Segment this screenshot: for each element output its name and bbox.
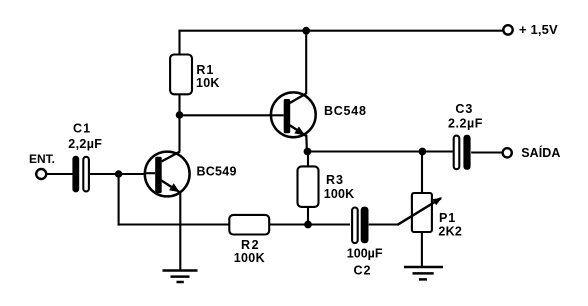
svg-text:C2: C2 — [354, 263, 372, 277]
wire: junction to BC548 base — [180, 114, 285, 116]
wire: ENT to C1 — [46, 173, 73, 175]
wire: BC549 emitter to ground — [179, 192, 181, 272]
svg-text:+ 1,5V: + 1,5V — [519, 22, 558, 37]
svg-text:C3: C3 — [455, 102, 473, 116]
svg-text:2K2: 2K2 — [438, 224, 462, 238]
wire: node A down — [118, 174, 120, 226]
resistor R3 — [298, 152, 355, 225]
wire: R2 to C2 — [269, 223, 350, 225]
capacitor C1 (2,2uF) — [68, 122, 102, 193]
svg-text:SAÍDA: SAÍDA — [521, 145, 560, 160]
capacitor C2 (100uF) — [347, 207, 383, 278]
node: BC548 emitter junction — [304, 148, 312, 156]
svg-text:C1: C1 — [73, 122, 91, 136]
resistor R1 — [170, 55, 192, 95]
node: collector to rail — [302, 27, 310, 35]
svg-text:100K: 100K — [324, 187, 354, 201]
node: P1 top junction — [419, 148, 427, 156]
svg-text:R3: R3 — [326, 173, 344, 187]
svg-text:100µF: 100µF — [347, 246, 383, 260]
wire: rail to R1 top — [178, 30, 180, 55]
node: R1 / BC549 collector / BC548 base junction — [176, 111, 184, 119]
svg-text:2,2µF: 2,2µF — [68, 137, 102, 151]
svg-text:P1: P1 — [439, 211, 456, 225]
terminal +1,5V — [503, 25, 512, 34]
ground under P1 — [404, 267, 443, 279]
svg-text:BC549: BC549 — [197, 165, 237, 179]
svg-text:100K: 100K — [234, 251, 265, 265]
transistor Q2 BC548 — [271, 92, 367, 151]
resistor R2 — [229, 215, 269, 235]
ground under BC549 — [163, 271, 198, 283]
terminal ENT. — [36, 169, 46, 179]
wire: P1 to ground — [421, 232, 423, 268]
transistor Q1 BC549 — [144, 152, 237, 197]
wire: C1 to BC549 base — [90, 173, 156, 175]
wire: +1,5V supply rail — [180, 30, 504, 32]
wire: BC549 collector vertical — [178, 115, 180, 152]
wire: C2 to P1 wiper — [369, 223, 399, 225]
svg-text:R1: R1 — [196, 63, 214, 77]
svg-text:2.2µF: 2.2µF — [448, 116, 483, 130]
wire: bottom run to R2 — [118, 223, 230, 225]
svg-text:BC548: BC548 — [324, 104, 367, 118]
node: R3 bottom junction — [304, 221, 312, 229]
wire: C3 to SAIDA — [471, 151, 503, 153]
svg-text:ENT.: ENT. — [29, 152, 55, 166]
wire: BC548 collector vertical — [305, 31, 307, 94]
wire: R1 bottom lead — [178, 94, 180, 116]
terminal SAIDA — [503, 148, 512, 157]
potentiometer P1 (2K2) — [398, 152, 463, 239]
wire: emitter row to C3 — [308, 150, 453, 152]
capacitor C3 (2,2uF) — [448, 102, 483, 170]
svg-text:10K: 10K — [196, 76, 220, 90]
node A: base junction — [115, 170, 123, 178]
